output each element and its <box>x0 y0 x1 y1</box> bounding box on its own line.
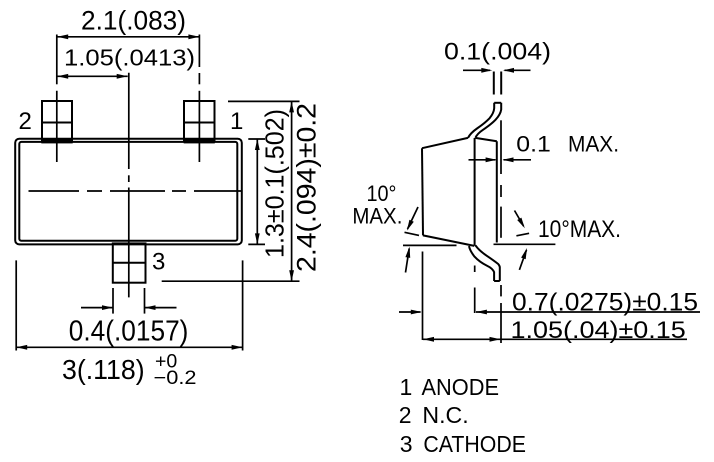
dimension 1.05(.0413) <box>57 44 195 78</box>
svg-text:0.4(.0157): 0.4(.0157) <box>69 316 189 348</box>
pin 2 centerline <box>56 91 58 162</box>
svg-text:1.05(.04)±0.15: 1.05(.04)±0.15 <box>511 317 686 344</box>
svg-text:0.1(.004): 0.1(.004) <box>444 39 551 66</box>
svg-text:3: 3 <box>152 249 165 276</box>
svg-text:0.7(.0275)±0.15: 0.7(.0275)±0.15 <box>512 289 698 317</box>
svg-text:1: 1 <box>230 108 243 135</box>
pin 2 <box>41 101 72 143</box>
body outline inner (top view) <box>19 142 237 241</box>
body outline outer (top view) <box>15 139 242 245</box>
lead upper section <box>494 72 501 95</box>
body horizontal centerline <box>29 190 243 192</box>
svg-text:1.3±0.1(.502): 1.3±0.1(.502) <box>260 109 290 258</box>
dimension 1.3±0.1(.502) <box>248 109 289 258</box>
svg-text:MAX.: MAX. <box>568 131 619 156</box>
dimension 1.05(.04)±0.15 <box>423 317 687 344</box>
svg-text:2.4(.094)±0.2: 2.4(.094)±0.2 <box>292 103 322 272</box>
svg-text:3: 3 <box>400 431 413 457</box>
svg-text:2: 2 <box>399 402 412 428</box>
dimension 0.1 MAX. <box>469 131 620 162</box>
pin label 1 <box>230 108 243 135</box>
pin label 2 <box>19 108 32 135</box>
pin label 3 <box>152 249 165 276</box>
pin 1 centerline <box>198 73 200 162</box>
pin 3 <box>113 243 146 282</box>
svg-text:N.C.: N.C. <box>422 402 468 428</box>
svg-text:ANODE: ANODE <box>422 374 500 400</box>
svg-text:0.1: 0.1 <box>516 131 551 156</box>
angle dimension 10 deg left <box>352 181 419 273</box>
dimension 2.4(.094)±0.2 <box>162 101 322 281</box>
dimension 2.1(.083) <box>57 6 200 85</box>
svg-text:1.05(.0413): 1.05(.0413) <box>64 44 195 70</box>
dimension 3(.118) +0/-0.2 <box>16 260 242 389</box>
seating plane line left <box>403 244 457 246</box>
svg-text:2.1(.083): 2.1(.083) <box>81 6 186 36</box>
svg-text:3(.118): 3(.118) <box>62 354 145 385</box>
body (side view) <box>422 138 497 246</box>
lead through body <box>474 138 476 246</box>
svg-text:10°MAX.: 10°MAX. <box>538 216 621 243</box>
lead bottom S-bend <box>469 245 500 281</box>
svg-text:2: 2 <box>19 108 32 135</box>
seating plane line right <box>494 243 556 245</box>
angle dimension 10 deg right <box>515 211 622 270</box>
svg-text:MAX.: MAX. <box>352 203 402 228</box>
svg-text:10°: 10° <box>367 181 397 206</box>
pin function list <box>399 374 526 457</box>
lead top S-bend <box>468 103 501 138</box>
body vertical centerline <box>128 73 130 298</box>
svg-text:−0.2: −0.2 <box>154 368 197 389</box>
svg-text:CATHODE: CATHODE <box>423 431 526 457</box>
dimension 0.4(.0157) <box>69 288 189 348</box>
pin 1 <box>184 101 215 143</box>
dimension 0.1(.004) <box>444 39 551 73</box>
svg-text:1: 1 <box>400 374 413 400</box>
dimension 0.7(.0275)±0.15 <box>399 252 700 341</box>
lead plane dashed line <box>500 120 502 343</box>
